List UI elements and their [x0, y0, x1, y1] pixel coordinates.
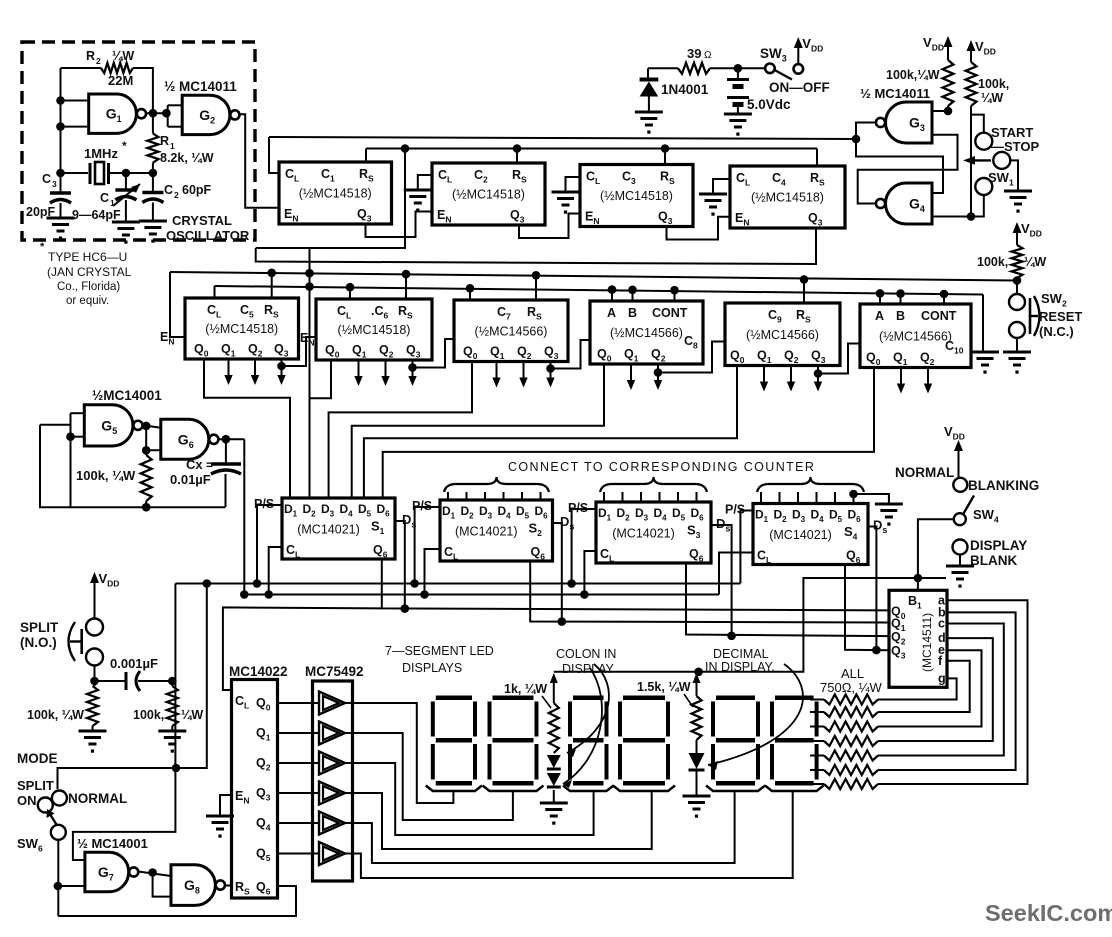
display power line from blanking node — [554, 578, 918, 672]
pushbutton SPLIT N.O. — [86, 619, 103, 636]
wire C8 A B CONT risers — [611, 290, 613, 301]
ground at C2 CL — [418, 175, 432, 190]
svg-text:(N.O.): (N.O.) — [20, 635, 57, 650]
wire C1 CL to clock line — [269, 137, 279, 173]
resistor 100k quarter W at SW2 — [1012, 245, 1023, 278]
capacitor 0.001uF — [95, 680, 127, 682]
wire C2 Q3 to C3 EN cascade — [519, 214, 580, 239]
crystal oscillator dashed enclosure — [22, 42, 255, 240]
cathode bracket digit 6 — [765, 786, 824, 792]
buffer array MC75492 — [313, 681, 353, 881]
counter C1 (half MC14518) — [279, 162, 392, 224]
wire S3 CL stub — [584, 551, 596, 595]
svg-text:0.01µF: 0.01µF — [170, 472, 211, 487]
switch SW1 lower contact — [975, 178, 992, 195]
wire S1 CL stub — [269, 547, 282, 595]
svg-text:ON: ON — [17, 793, 37, 808]
wire R2 top left lead — [61, 67, 102, 69]
svg-text:MC14022: MC14022 — [229, 664, 288, 679]
arrows C8 Q1 Q2 outputs — [630, 364, 632, 382]
svg-text:B: B — [896, 309, 905, 323]
battery B 5.0Vdc — [737, 68, 739, 78]
feedback rail bottom — [71, 506, 226, 508]
gate G3 (half MC14011) — [886, 102, 932, 143]
ground below SW2 — [1003, 351, 1031, 354]
svg-text:8.2k, ¼W: 8.2k, ¼W — [160, 151, 214, 165]
decoder B1 (MC14511) — [889, 590, 947, 687]
buffer triangle — [319, 752, 345, 775]
svg-text:SPLIT: SPLIT — [20, 620, 59, 635]
svg-text:COLON IN: COLON IN — [556, 647, 616, 661]
LED colon lower — [547, 773, 561, 786]
wire C7 CL riser — [469, 288, 471, 300]
wire buffer 6 output to digit 6 cathode — [343, 796, 793, 878]
resistor 750 ohm segment 4 — [824, 736, 878, 746]
resistor 39 ohm — [678, 63, 710, 74]
wire MC14022 output to buffer — [278, 822, 320, 824]
wire S4 D6 to ground — [849, 490, 858, 499]
gate G7 (half MC14001) — [85, 852, 129, 892]
7-segment display digit 6 — [770, 696, 819, 786]
svg-text:1N4001: 1N4001 — [661, 82, 709, 97]
wire C5 RS riser — [271, 273, 273, 298]
svg-text:1k, ¼W: 1k, ¼W — [504, 682, 547, 696]
svg-text:1: 1 — [110, 198, 115, 208]
wire C1 RS riser — [365, 149, 367, 163]
wire C5 Q0 to S1 D1 — [204, 359, 290, 498]
wire C10 A B CONT risers — [879, 293, 881, 304]
resistor 750 ohm segment 6 — [824, 765, 878, 775]
buffer triangle — [319, 692, 345, 715]
resistor 750 ohm segment 7 — [824, 779, 878, 789]
wire S2 P/S stub — [415, 507, 440, 584]
svg-text:c: c — [938, 617, 945, 631]
VDD arrow pullup 1 — [947, 45, 949, 60]
svg-text:A: A — [875, 309, 884, 323]
wire mode junction riser — [58, 584, 207, 790]
braces connect to corresponding counter — [444, 477, 549, 492]
wire C7 Q0 to S1 D3 — [329, 362, 472, 499]
leader arc decimal — [708, 664, 803, 765]
switch SW3 ON-OFF — [765, 64, 775, 74]
wire buffer 3 output to digit 3 cathode — [343, 763, 594, 835]
svg-text:5.0Vdc: 5.0Vdc — [747, 97, 791, 112]
svg-text:C: C — [100, 191, 109, 205]
decimal feed arrow — [693, 673, 701, 683]
svg-text:(½MC14518): (½MC14518) — [600, 189, 673, 203]
svg-text:A: A — [607, 306, 616, 320]
shift register S4 (MC14021) — [753, 504, 868, 565]
svg-text:(MC14021): (MC14021) — [769, 528, 832, 542]
gate G6 (half MC14001) — [161, 419, 209, 459]
svg-text:1MHz: 1MHz — [84, 146, 118, 161]
cathode bracket digit 5 — [706, 786, 765, 792]
arrows C9 Q1 Q2 Q3 outputs — [763, 366, 765, 384]
svg-text:(½MC14518): (½MC14518) — [751, 191, 824, 205]
wire control bus right elbow to ground — [982, 295, 984, 353]
wire C7 Q3 to C8 EN cascade — [551, 340, 591, 369]
svg-text:¼W: ¼W — [981, 91, 1003, 105]
svg-text:NORMAL: NORMAL — [895, 465, 954, 480]
svg-text:CONNECT TO CORRESPONDING COUNT: CONNECT TO CORRESPONDING COUNTER — [508, 460, 815, 474]
svg-text:(MC14021): (MC14021) — [455, 525, 518, 539]
counter C9 (half MC14566) — [725, 303, 840, 366]
svg-text:100k,: 100k, — [978, 77, 1009, 91]
7-segment display digit 4 — [618, 696, 670, 786]
shift register S2 (MC14021) — [440, 500, 553, 561]
bus shift clock line from G6 — [244, 594, 719, 596]
switch SW6 SPLIT ON contact — [38, 798, 53, 813]
wire G8 output to MC14022 RS — [225, 885, 232, 887]
ground below right 100k — [171, 726, 173, 731]
wire S4 P/S stub — [740, 511, 753, 584]
wire grounded control bus — [215, 286, 984, 295]
gate G1 (half MC14011) — [89, 94, 137, 133]
wire reset bus left drop to C5 — [170, 272, 185, 337]
svg-text:¼W: ¼W — [181, 708, 203, 722]
svg-text:CONT: CONT — [921, 309, 957, 323]
resistor 100k quarter W pullup 2 — [966, 62, 977, 106]
svg-text:=: = — [206, 458, 213, 472]
wire blank node to ground — [918, 577, 946, 579]
svg-text:ALL: ALL — [841, 666, 864, 681]
wire C2 RS riser — [516, 149, 518, 164]
wire G5 output to G6 inputs — [143, 425, 161, 428]
svg-text:¼W: ¼W — [112, 49, 134, 63]
svg-text:or equiv.: or equiv. — [66, 295, 109, 307]
resistor 1k colon — [549, 703, 559, 753]
wire SW4 to decoder node — [918, 519, 954, 590]
wire MC14022 clock tap on Q0 line — [223, 607, 382, 690]
svg-text:½ MC14011: ½ MC14011 — [164, 79, 237, 94]
LED colon upper — [547, 755, 561, 768]
resistor 100k left of mode — [87, 686, 98, 726]
svg-text:(N.C.): (N.C.) — [1039, 324, 1074, 339]
svg-text:BLANK: BLANK — [970, 553, 1017, 568]
svg-text:IN DISPLAY.: IN DISPLAY. — [705, 660, 775, 674]
arrows C5 Q1 Q2 Q3 outputs — [228, 359, 230, 377]
wire MC14022 output to buffer — [278, 762, 320, 764]
svg-text:1: 1 — [170, 141, 175, 151]
wire G1 input stubs — [61, 100, 89, 102]
svg-text:½ MC14001: ½ MC14001 — [77, 836, 148, 851]
ground at C4 CL — [713, 179, 730, 194]
svg-text:100k, ¼W: 100k, ¼W — [27, 708, 84, 722]
svg-text:(½MC14518): (½MC14518) — [338, 323, 411, 337]
svg-text:(½MC14566): (½MC14566) — [610, 326, 683, 340]
wire diode to resistor — [648, 67, 678, 69]
wire MC14022 output to buffer — [278, 853, 320, 855]
VDD arrow NORMAL — [958, 449, 960, 479]
wire G4 output cross-couple to G3 input — [858, 135, 958, 204]
wire S1 P/S stub — [257, 505, 282, 584]
svg-text:(MC14021): (MC14021) — [297, 523, 360, 537]
svg-text:*: * — [40, 241, 45, 253]
arrows C6 Q1 Q2 Q3 outputs — [358, 360, 360, 378]
svg-text:100k,: 100k, — [977, 255, 1008, 269]
wire buffer 5 output to digit 5 cathode — [343, 796, 735, 863]
svg-text:DISPLAY: DISPLAY — [562, 662, 615, 676]
wire 100k to reset bus junction — [1016, 278, 1018, 294]
ground below colon LEDs — [540, 802, 568, 805]
resistor 100k right of mode — [171, 681, 173, 686]
leader line 1.5k label — [684, 694, 693, 707]
leader arc colon lower — [563, 668, 602, 784]
wire SPLIT to cap node — [94, 666, 96, 687]
shift register S1 (MC14021) — [282, 498, 395, 559]
svg-text:START: START — [991, 125, 1033, 140]
svg-text:B: B — [628, 306, 637, 320]
counter C2 (half MC14518) — [432, 163, 545, 225]
wire G1 output node to G2 inputs — [146, 112, 168, 114]
gate G5 (half MC14001) — [84, 405, 133, 446]
variable arrow through C1 — [113, 184, 140, 206]
switch SW1 — [993, 152, 1010, 169]
ground below C2 — [139, 220, 167, 223]
wire pullup1 to G3 input — [947, 106, 949, 111]
counter C5 (half MC14518) — [185, 298, 299, 359]
svg-text:2: 2 — [96, 56, 101, 66]
wire row1 clock line from C1 CL to latch — [269, 137, 856, 139]
svg-text:MC75492: MC75492 — [305, 664, 364, 679]
terminal DISPLAY BLANK — [953, 540, 968, 555]
terminal START-STOP — [975, 133, 992, 150]
wire segment g from B1 to resistor — [878, 678, 957, 699]
counter C7 (half MC14566) — [454, 300, 568, 362]
wire row2 reset bus — [170, 272, 1017, 281]
svg-text:½MC14001: ½MC14001 — [92, 388, 162, 403]
svg-text:(JAN CRYSTAL: (JAN CRYSTAL — [47, 265, 132, 279]
VDD arrow pullup 2 — [970, 49, 972, 62]
wire C6 Q3 to C7 EN cascade — [413, 339, 455, 368]
leader line 1k label — [542, 696, 551, 708]
wire C7 RS riser — [535, 275, 537, 300]
wire C4 RS riser — [816, 149, 818, 167]
svg-text:BLANKING: BLANKING — [968, 478, 1039, 493]
svg-text:ON—OFF: ON—OFF — [769, 80, 830, 95]
wire segment e from B1 to resistor — [878, 650, 982, 726]
7-segment display digit 1 — [431, 696, 477, 786]
diode D1 1N4001 — [647, 68, 649, 79]
gate G8 (half MC14001) — [171, 865, 215, 906]
svg-text:NORMAL: NORMAL — [68, 791, 127, 806]
wire S4 CL stub — [719, 553, 753, 595]
svg-text:0.001µF: 0.001µF — [110, 656, 158, 671]
cathode bracket digit 4 — [613, 786, 675, 792]
resistor R2 22M — [101, 63, 133, 73]
wire R2 right lead down to G1 output node — [133, 68, 153, 113]
wire G6 output down to shift clock bus — [243, 439, 245, 594]
wire buffer 1 output to digit 1 cathode — [343, 703, 453, 803]
svg-text:100k, ¼W: 100k, ¼W — [76, 468, 136, 483]
ground below C1 — [112, 221, 140, 224]
counter C8 (half MC14566) — [590, 301, 703, 364]
svg-text:100k,: 100k, — [133, 708, 164, 722]
ground below left 100k — [92, 726, 94, 731]
wire buffer 4 output to digit 4 cathode — [343, 793, 652, 849]
wire G5 input bracket — [70, 413, 72, 437]
VDD arrow mid right — [1016, 231, 1018, 245]
gate G2 (half MC14011) — [182, 95, 230, 134]
shift register S3 (MC14021) — [596, 502, 711, 563]
svg-text:TYPE HC6—U: TYPE HC6—U — [48, 250, 127, 264]
resistor 750 ohm segment 5 — [824, 751, 878, 761]
wire G1 input left rail — [60, 68, 62, 173]
arrows C7 Q1 Q2 Q3 outputs — [496, 362, 498, 380]
wire G2 output to counter C1 EN pin — [240, 114, 280, 208]
cathode bracket digit 3 — [563, 786, 614, 792]
7-segment display digit 3 — [568, 696, 609, 786]
ground at C3 CL — [566, 177, 581, 192]
svg-text:22M: 22M — [108, 73, 133, 88]
leader arc colon upper — [567, 664, 609, 753]
svg-text:(½MC14566): (½MC14566) — [475, 324, 548, 338]
wire pullup2 down to G4 input node — [970, 106, 972, 217]
svg-text:*: * — [122, 139, 127, 153]
svg-text:(½MC14566): (½MC14566) — [879, 329, 952, 343]
svg-text:R: R — [86, 49, 95, 63]
svg-text:3: 3 — [52, 179, 57, 189]
counter MC14022 — [232, 680, 278, 899]
svg-text:DISPLAY: DISPLAY — [970, 538, 1027, 553]
svg-text:R: R — [160, 134, 169, 148]
wire SW6 to G7 input and rail — [57, 840, 59, 916]
wire G6 output node — [218, 438, 244, 440]
ground at DISPLAY BLANK — [959, 555, 961, 566]
cathode bracket digit 2 — [483, 786, 544, 792]
svg-text:g: g — [938, 671, 946, 685]
svg-text:Ω: Ω — [704, 50, 712, 61]
svg-text:(MC14511): (MC14511) — [920, 613, 934, 672]
wire segment b from B1 to resistor — [878, 612, 1016, 770]
wire S2 Q6 and Ds to decoder Q1 line — [530, 561, 889, 623]
wire C10 Q0 to S1 D6 — [383, 368, 874, 499]
wire C9 Q3 to C10 EN cascade — [818, 344, 860, 374]
wire C9 Q0 to S1 D5 — [364, 366, 737, 499]
svg-text:CRYSTAL: CRYSTAL — [172, 213, 232, 228]
gate G4 (half MC14011) — [886, 183, 932, 224]
svg-text:7—SEGMENT LED: 7—SEGMENT LED — [385, 644, 494, 658]
wire buffer 2 output to digit 2 cathode — [343, 733, 513, 820]
wire C5 Q3 to C6 EN cascade — [282, 337, 317, 366]
wire C4 Q3 down to row2 line — [256, 228, 816, 264]
resistor 750 ohm segment 1 — [824, 695, 878, 705]
wire segment d from B1 to resistor — [878, 638, 993, 741]
switch SW6 NORMAL contact — [52, 791, 67, 806]
svg-text:Co., Florida): Co., Florida) — [57, 281, 120, 293]
7-segment display digit 2 — [488, 696, 539, 786]
resistor 100k feedback — [141, 455, 152, 501]
svg-text:9—64pF: 9—64pF — [72, 208, 121, 222]
resistor 1.5k decimal — [692, 696, 702, 740]
bus P/S line — [175, 583, 740, 585]
ground below 1N4001 — [635, 111, 663, 114]
VDD arrow at SW3 — [797, 46, 799, 64]
LED decimal — [689, 753, 705, 769]
terminal BLANKING — [953, 478, 967, 492]
wire C3 Q3 to C4 EN cascade — [667, 217, 731, 240]
wire SW2 to ground — [1016, 338, 1018, 352]
wire G5 input to feedback rail — [40, 424, 71, 426]
svg-text:(½MC14518): (½MC14518) — [205, 322, 278, 336]
buffer triangle — [319, 722, 345, 745]
svg-text:39: 39 — [687, 46, 701, 61]
resistor 750 ohm segment 2 — [824, 707, 878, 717]
buffer triangle — [319, 812, 345, 835]
svg-text:C: C — [164, 183, 173, 197]
svg-text:C: C — [42, 172, 51, 186]
wire G7 output to G8 inputs — [138, 872, 171, 877]
buffer triangle — [319, 782, 345, 805]
ground at S4 D6 — [875, 503, 903, 506]
cathode bracket digit 1 — [426, 786, 482, 792]
buffer triangle — [319, 842, 345, 865]
wire S3 P/S stub — [572, 509, 596, 584]
resistor R1 8.2k — [147, 133, 158, 162]
wire C1 Q3 to C2 EN cascade — [366, 212, 433, 238]
colon feed arrow — [550, 673, 558, 683]
svg-text:750Ω, ¼W: 750Ω, ¼W — [820, 680, 882, 695]
wire S4 Q6 and Ds to decoder Q3 line — [845, 565, 889, 651]
wire segment c from B1 to resistor — [878, 624, 1004, 756]
ground at SW1 — [1004, 190, 1032, 193]
wire reset bus drop to row 2 — [256, 149, 405, 249]
ground below decimal LED — [683, 795, 711, 798]
wire G3 output to clock line and cross-couple to G4 input — [856, 123, 943, 194]
svg-text:(½MC14518): (½MC14518) — [452, 188, 525, 202]
wire MC14022 EN to ground — [220, 795, 232, 816]
7-segment display digit 5 — [711, 696, 760, 786]
capacitor C1 variable 9-64pF — [125, 173, 127, 190]
wire control bus left elbow to C5 CL — [214, 286, 216, 298]
switch SW6 arm — [51, 815, 59, 828]
wire MC14022 output to buffer — [278, 732, 320, 734]
wire segment f from B1 to resistor — [878, 661, 970, 712]
wire x309 vertical bus drop to C6 EN — [309, 248, 311, 498]
wire MC14022 output to buffer — [278, 702, 320, 704]
switch SW4 pole — [954, 513, 966, 525]
switch SW2 RESET NC — [1009, 294, 1025, 310]
resistor 750 ohm segment 3 — [824, 722, 878, 732]
wire MC14022 output to buffer — [278, 792, 320, 794]
svg-text:MODE: MODE — [17, 751, 58, 766]
ground for control bus — [971, 351, 999, 354]
svg-text:OSCILLATOR: OSCILLATOR — [166, 228, 250, 243]
svg-text:SeekIC.com: SeekIC.com — [985, 900, 1112, 926]
row1 reset bus — [366, 148, 817, 150]
svg-text:1.5k, ¼W: 1.5k, ¼W — [637, 680, 691, 694]
wire P/S bus left drop to G7 — [73, 584, 175, 861]
ground below battery — [724, 113, 752, 116]
counter C6 (half MC14518) — [316, 299, 432, 360]
wire S3 Q6 and Ds to decoder Q2 line — [686, 563, 889, 636]
bottom rail to MC14022 Q6 — [58, 886, 296, 916]
ground below C3 — [47, 217, 75, 220]
svg-text:¼W: ¼W — [1024, 255, 1046, 269]
resistor 100k quarter W pullup 1 — [943, 60, 954, 106]
counter C3 (half MC14518) — [580, 165, 693, 227]
wire C9 RS riser — [803, 279, 805, 303]
wire C6 RS riser — [405, 274, 407, 299]
svg-text:DISPLAYS: DISPLAYS — [402, 661, 462, 675]
capacitor C2 60pF — [152, 173, 154, 193]
wire C8 Q2 to C9 EN cascade — [658, 342, 725, 373]
wire C8 Q0 to S1 D4 — [352, 364, 604, 498]
svg-text:2: 2 — [174, 190, 179, 200]
svg-text:SPLIT: SPLIT — [17, 778, 54, 793]
svg-text:½ MC14011: ½ MC14011 — [860, 86, 930, 101]
svg-text:RESET: RESET — [1039, 309, 1082, 324]
